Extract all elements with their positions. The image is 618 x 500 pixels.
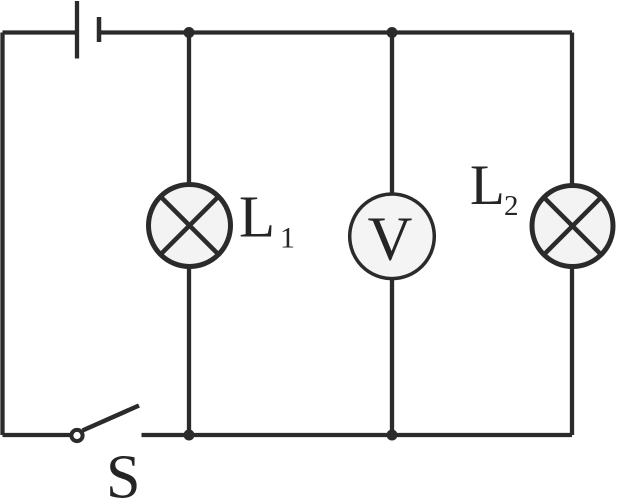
svg-text:2: 2 bbox=[504, 190, 519, 222]
wire: top from battery to right corner bbox=[99, 30, 572, 34]
lamp L2 cross bbox=[544, 197, 601, 254]
svg-text:S: S bbox=[106, 444, 140, 500]
wire: bottom left to switch bbox=[3, 433, 71, 437]
wire: right side upper bbox=[570, 33, 574, 186]
battery B1 long plate bbox=[75, 1, 79, 59]
wire: bottom from switch to right corner bbox=[142, 433, 573, 437]
switch S pivot circle bbox=[71, 430, 82, 441]
node: bottom junction at branch 1 bbox=[184, 430, 195, 441]
svg-text:V: V bbox=[368, 206, 413, 274]
wire: left side bbox=[0, 33, 4, 436]
node: top junction at branch 2 bbox=[387, 27, 398, 38]
node: top junction at branch 1 bbox=[184, 27, 195, 38]
wire: branch 1 upper bbox=[187, 33, 191, 185]
lamp L2 circle bbox=[532, 186, 613, 267]
wire: branch 1 lower bbox=[187, 268, 191, 435]
voltmeter V circle bbox=[350, 194, 435, 279]
wire: top left from corner to battery bbox=[3, 30, 78, 34]
node: bottom junction at branch 2 bbox=[387, 430, 398, 441]
svg-text:L: L bbox=[239, 184, 275, 250]
svg-text:1: 1 bbox=[280, 221, 295, 254]
wire: branch 2 upper bbox=[390, 33, 394, 195]
lamp L1 cross bbox=[161, 197, 219, 255]
wire: right side lower bbox=[570, 267, 574, 435]
wire: branch 2 lower bbox=[390, 279, 394, 435]
switch S lever bbox=[83, 406, 140, 431]
battery B1 short plate bbox=[97, 17, 102, 42]
svg-text:L: L bbox=[470, 154, 505, 217]
lamp L1 circle bbox=[149, 185, 231, 267]
